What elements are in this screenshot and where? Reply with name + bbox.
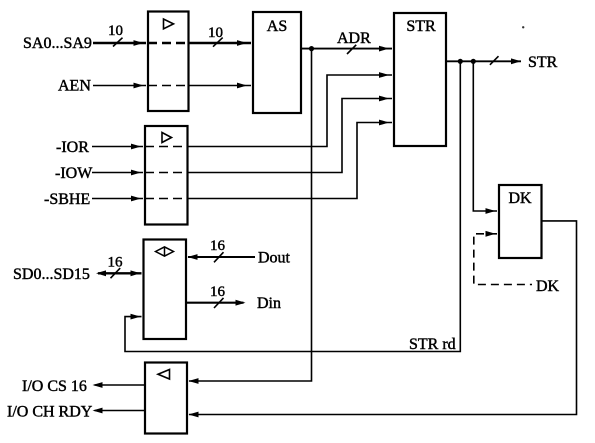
- junction dot STR output 2: [471, 59, 476, 64]
- svg-text:Dout: Dout: [258, 250, 291, 267]
- arrowhead STR rd into B3: [131, 314, 141, 320]
- svg-text:STR: STR: [406, 18, 436, 35]
- arrowhead SD bus into B3: [131, 270, 141, 276]
- wire Dout into B3: [188, 256, 255, 258]
- wire -IOW from B2 up to STR: [188, 99, 393, 173]
- svg-text:-IOR: -IOR: [56, 139, 89, 156]
- svg-text:10: 10: [108, 23, 123, 39]
- arrowhead STR output: [511, 58, 521, 64]
- wire I/O CS 16 output: [95, 384, 146, 386]
- arrowhead into DK input 2 (dashed wire): [486, 231, 496, 237]
- svg-text:SA0...SA9: SA0...SA9: [23, 35, 92, 52]
- svg-text:SD0...SD15: SD0...SD15: [13, 266, 90, 283]
- svg-text:-IOW: -IOW: [55, 165, 93, 182]
- svg-text:AEN: AEN: [58, 78, 91, 95]
- arrowhead SA into B1: [134, 40, 144, 46]
- wire -IOR dashed inside B2: [145, 146, 188, 148]
- arrowhead AEN into AS: [237, 83, 247, 89]
- wire SD0...SD15 bus: [98, 272, 142, 274]
- arrowhead ADR into STR: [379, 46, 389, 52]
- junction dot on ADR line: [309, 46, 314, 51]
- arrowhead -IOW into B2: [131, 170, 141, 176]
- buffer B4 symbol (left-pointing triangle): [158, 370, 170, 380]
- wire SA0...SA9 into B1: [93, 42, 146, 45]
- buffer B1 (address buffer): [148, 12, 189, 112]
- block STR: [394, 13, 446, 146]
- arrowhead Din output: [236, 300, 246, 306]
- arrowhead Dout into B3: [188, 254, 198, 260]
- wire AEN from B1 to AS: [189, 85, 252, 87]
- arrowhead DK output into B4: [189, 412, 199, 418]
- block DK: [499, 185, 542, 258]
- arrowhead I/O CS 16: [93, 382, 103, 388]
- svg-text:I/O CH RDY: I/O CH RDY: [7, 404, 93, 421]
- bus slash on SD bus: [111, 268, 121, 278]
- wire -IOR into B2: [92, 146, 143, 148]
- junction dot STR output 1: [458, 59, 463, 64]
- arrowhead -IOR into STR: [379, 72, 389, 78]
- arrowhead AEN into B1: [134, 83, 144, 89]
- arrowhead -IOR into B2: [131, 144, 141, 150]
- arrowhead SD bus left: [96, 270, 106, 276]
- buffer B2 (command buffer): [145, 126, 188, 225]
- wire -SBHE dashed inside B2: [145, 198, 188, 200]
- wire I/O CH RDY output: [95, 410, 146, 412]
- bus slash on ADR: [347, 45, 356, 54]
- wire ADR from AS to STR: [301, 48, 392, 50]
- wire DK dashed control with label: [474, 234, 532, 285]
- buffer B2 symbol (right-pointing triangle): [162, 133, 172, 143]
- wire AEN dashed inside B1: [148, 85, 189, 87]
- svg-text:I/O CS 16: I/O CS 16: [22, 378, 87, 395]
- wire -IOW into B2: [92, 172, 143, 174]
- svg-text:STR: STR: [528, 54, 558, 71]
- wire SA from B1 to AS: [189, 42, 252, 45]
- wire STR rd feedback loop to B3: [125, 61, 460, 351]
- svg-text:DK: DK: [536, 278, 560, 295]
- bus slash on STR output: [490, 56, 499, 65]
- wire ADR branch down to B4: [189, 49, 312, 381]
- svg-text:Din: Din: [257, 295, 281, 312]
- arrowhead ADR branch into B4: [189, 378, 199, 384]
- svg-text:-SBHE: -SBHE: [44, 191, 90, 208]
- wire SA dashed inside B1: [148, 42, 189, 45]
- svg-text:10: 10: [208, 25, 223, 41]
- bus slash on Din: [214, 298, 224, 308]
- wire -SBHE into B2: [92, 198, 143, 200]
- svg-text:16: 16: [108, 255, 124, 271]
- arrowhead I/O CH RDY: [93, 408, 103, 414]
- wire STR output: [446, 60, 521, 62]
- wire from STR output down to DK input: [473, 61, 497, 211]
- svg-text:AS: AS: [267, 18, 287, 35]
- wire -SBHE from B2 up to STR: [188, 123, 393, 199]
- svg-text:16: 16: [210, 238, 226, 254]
- wire AEN into B1: [93, 85, 146, 87]
- buffer B4 (status buffer): [145, 363, 187, 434]
- svg-text:ADR: ADR: [337, 30, 371, 47]
- arrowhead into DK input 1: [486, 208, 496, 214]
- arrowhead -SBHE into B2: [131, 196, 141, 202]
- buffer B3 (data transceiver): [144, 240, 187, 340]
- bus slash on SA before B1: [113, 38, 123, 47]
- buffer B1 symbol (right-pointing triangle): [164, 19, 174, 29]
- arrowhead -IOW into STR: [379, 96, 389, 102]
- bus slash on SA before AS: [213, 38, 223, 47]
- wire DK output down to B4: [189, 221, 577, 415]
- svg-text:STR rd: STR rd: [409, 336, 456, 353]
- wire Din out of B3: [186, 302, 244, 304]
- wire -IOW dashed inside B2: [145, 172, 188, 174]
- svg-text:DK: DK: [508, 190, 532, 207]
- arrowhead SA into AS: [237, 40, 247, 46]
- scan speckle: [522, 26, 524, 28]
- arrowhead -SBHE into STR: [379, 120, 389, 126]
- wire -IOR from B2 up to STR: [188, 75, 393, 147]
- block AS: [253, 12, 301, 113]
- svg-text:16: 16: [210, 284, 226, 300]
- bus slash on Dout: [214, 252, 224, 262]
- buffer B3 symbol (bidirectional diamond): [156, 247, 174, 256]
